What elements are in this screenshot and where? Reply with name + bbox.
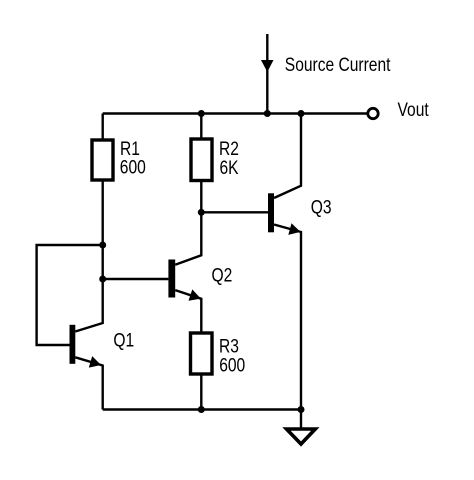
svg-text:6K: 6K (220, 156, 239, 178)
svg-text:Source Current: Source Current (285, 53, 391, 75)
svg-text:Q2: Q2 (212, 264, 233, 286)
svg-text:Q1: Q1 (113, 329, 134, 351)
svg-text:Vout: Vout (398, 99, 429, 121)
svg-text:Q3: Q3 (311, 196, 332, 218)
svg-text:600: 600 (120, 156, 146, 178)
svg-text:600: 600 (219, 354, 245, 376)
